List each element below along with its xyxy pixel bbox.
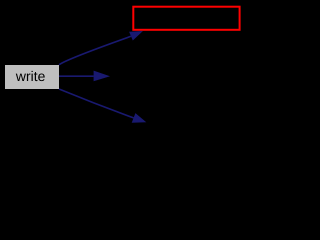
wire: edge write -> bottom hidden node xyxy=(59,89,134,118)
arrowhead of edge write -> red node xyxy=(129,31,143,41)
arrowhead of edge write -> bottom hidden node xyxy=(132,113,147,123)
wire: edge write -> middle hidden node xyxy=(59,75,94,77)
node: truncated callee (red box) xyxy=(133,7,239,30)
node write xyxy=(5,65,59,89)
label write xyxy=(16,71,45,81)
arrowhead of edge write -> middle hidden node xyxy=(94,71,110,82)
wire: edge write -> red node xyxy=(59,36,131,65)
